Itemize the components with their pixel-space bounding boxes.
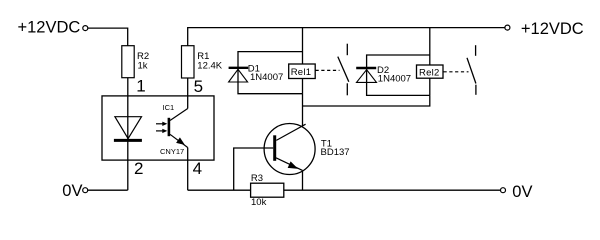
svg-text:5: 5 — [194, 77, 203, 96]
relay coil Rel1 — [289, 64, 316, 79]
wire T1 collector up to relay branch — [302, 94, 304, 126]
terminal +12VDC left — [83, 26, 88, 31]
diode D1 — [229, 64, 284, 83]
svg-text:IC1: IC1 — [163, 103, 175, 112]
dashed link Rel2 to contact — [444, 71, 469, 73]
wire 0V left to pin 2 — [88, 189, 128, 191]
node 0V left label — [62, 182, 82, 200]
dashed link Rel1 to contact — [316, 69, 340, 71]
svg-text:10k: 10k — [251, 197, 267, 208]
node +12VDC right label — [521, 20, 584, 38]
optocoupler IC1 box — [102, 96, 214, 160]
terminal 0V right — [501, 188, 506, 193]
svg-text:0V: 0V — [512, 183, 532, 201]
relay contact switch 2 — [467, 45, 476, 95]
svg-text:1: 1 — [136, 77, 145, 96]
wire T1 emitter to bottom rail — [302, 171, 304, 190]
phototransistor of IC1 — [169, 109, 188, 148]
svg-text:1k: 1k — [138, 60, 148, 71]
pin 2 — [134, 159, 143, 178]
wire base branch node to T1 base — [234, 148, 274, 190]
svg-text:Rel1: Rel1 — [291, 67, 312, 78]
wire pin 1 / LED / pin 2 vertical — [127, 78, 129, 191]
svg-text:4: 4 — [193, 159, 202, 178]
svg-text:+12VDC: +12VDC — [521, 20, 584, 38]
wire relay2 bottom to collector node — [303, 95, 430, 106]
wire relay 1 vertical from top rail — [302, 28, 304, 94]
resistor R1 — [182, 46, 223, 78]
wire D2 loop — [367, 55, 430, 95]
svg-text:CNY17: CNY17 — [160, 147, 184, 156]
wire +12VDC left to R2 top — [88, 28, 128, 46]
pin 1 — [136, 77, 145, 96]
wire relay 2 vertical from top rail — [429, 28, 431, 96]
terminal +12VDC right — [505, 25, 510, 30]
pin 4 — [193, 159, 202, 178]
node +12VDC left label — [18, 19, 81, 37]
LED inside IC1 — [114, 117, 142, 141]
CNY17 label — [160, 147, 184, 156]
svg-text:12.4K: 12.4K — [197, 61, 222, 72]
transistor T1 — [264, 124, 349, 175]
wire R1 bottom to opto pin 5 — [187, 78, 189, 109]
resistor R3 — [251, 173, 284, 208]
svg-text:2: 2 — [134, 159, 143, 178]
terminal 0V left — [83, 188, 88, 193]
svg-text:R3: R3 — [251, 173, 263, 184]
wire R3 to 0V right — [284, 189, 501, 191]
wire D1 loop — [238, 52, 303, 94]
IC1 label — [163, 103, 175, 112]
wire top rail (+12VDC right) — [188, 28, 505, 46]
light arrows into IC1 base — [156, 122, 167, 134]
node 0V right label — [512, 183, 532, 201]
diode D2 — [356, 65, 411, 84]
relay contact switch 1 — [338, 44, 349, 96]
wire bottom rail pin4 to R3 — [188, 189, 251, 191]
svg-text:+12VDC: +12VDC — [18, 19, 81, 37]
relay coil Rel2 — [417, 65, 444, 78]
svg-text:Rel2: Rel2 — [419, 67, 440, 78]
svg-text:1N4007: 1N4007 — [378, 73, 411, 84]
svg-text:1N4007: 1N4007 — [250, 72, 283, 83]
svg-text:BD137: BD137 — [321, 147, 350, 158]
pin 5 — [194, 77, 203, 96]
wire opto emitter to pin 4 / bottom rail — [187, 148, 189, 191]
svg-text:0V: 0V — [62, 182, 82, 200]
resistor R2 — [122, 46, 149, 78]
